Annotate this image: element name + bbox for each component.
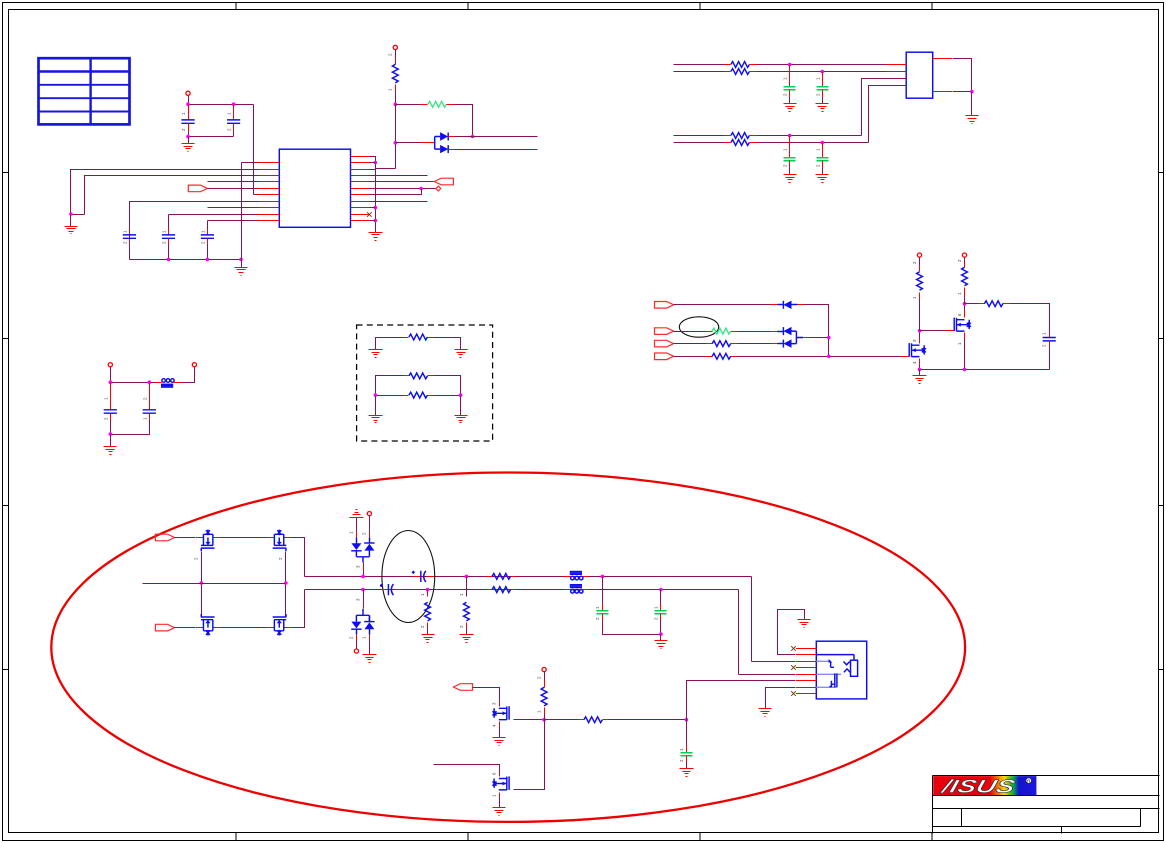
capacitor C9 pin2 stub: [822, 161, 824, 169]
resistor R18: [584, 717, 603, 723]
wire G1 down to Q4 gate: [514, 720, 545, 790]
revision table row lines: [39, 85, 130, 112]
diode D7 up: [364, 544, 374, 551]
wire R13 gnd stem: [427, 629, 429, 635]
junction dot F2: [148, 380, 152, 384]
wire pin R2 join: [370, 162, 376, 164]
wire T pin3: [363, 571, 365, 577]
title block line3: [933, 808, 1160, 810]
resistor R1 pin2 stub: [395, 57, 397, 65]
inductor L1 pin1 stub: [156, 382, 162, 384]
transistor Q1: [908, 343, 910, 357]
wire TR net2: [758, 71, 887, 73]
ground S: [655, 641, 668, 649]
capacitor C17 pin1 stub: [686, 746, 688, 753]
capacitor C3 pin1 stub: [129, 229, 131, 235]
wire T gnd stem: [356, 518, 358, 532]
diode D7 anode lead: [369, 538, 371, 544]
junction dot A3: [186, 135, 190, 139]
wire M4 to R9: [674, 356, 706, 358]
wire gnd stem L: [70, 215, 72, 227]
resistor R17 pin1 stub: [544, 708, 546, 715]
wire J1 pin2 gnd loop: [778, 610, 805, 655]
ground J1a: [798, 620, 811, 628]
wire TR net4 vertical: [869, 86, 907, 143]
wire pin R9 join: [370, 207, 376, 209]
wire net L3 long: [85, 176, 259, 215]
power symbol VCC4: [192, 363, 196, 367]
resistor R11 pin1 stub: [964, 288, 966, 296]
wire R11 to node: [964, 296, 966, 304]
junction dot R9: [374, 206, 378, 210]
capacitor C7 green: [817, 87, 829, 90]
junction dot M9: [918, 368, 922, 372]
wire BR in2: [674, 142, 725, 144]
wire R10 to node: [919, 300, 921, 331]
wire B down to IC bus: [376, 168, 396, 170]
wire J1 pin7 gnd: [766, 688, 796, 709]
connector J1 pins: [796, 649, 816, 694]
junction dot LB1: [167, 258, 171, 262]
junction dot M5: [827, 336, 831, 340]
wire right bus top corner: [370, 157, 376, 233]
capacitor C7 pin2 stub: [822, 90, 824, 98]
capacitor C11 pin2 stub: [149, 383, 151, 410]
junction dot T3: [788, 134, 792, 138]
port PM4: [655, 353, 674, 360]
connector J1 body: [816, 641, 866, 699]
junction dot D2: [459, 393, 463, 397]
junction dot U2g: [970, 90, 974, 94]
ground right bus: [369, 233, 383, 241]
diode D2: [440, 145, 448, 153]
wire L3-L2 gnd link: [71, 214, 85, 216]
transistor M3: [196, 627, 221, 629]
terminal diamond R6: [436, 186, 441, 191]
resistor R18 pin stubs: [578, 719, 584, 721]
connector J1 switch lever: [831, 662, 834, 667]
junction dot T1: [788, 63, 792, 67]
transistor Q4 source stub: [499, 793, 501, 799]
wire vertical L1-net: [241, 163, 243, 260]
wire Rt3 right stub: [434, 395, 461, 397]
capacitor C16 pin2 stub: [660, 614, 662, 621]
ground R14: [460, 635, 474, 643]
wire bottom feed right: [739, 674, 796, 676]
inductor L2: [571, 576, 575, 580]
junction dot T4: [821, 141, 825, 145]
wire M2 to R7: [674, 331, 706, 333]
resistor R8 pin stubs: [706, 343, 713, 345]
junction dot B3: [394, 141, 398, 145]
capacitor C6 pin1 stub: [789, 65, 791, 87]
diode D9 pin1 stub: [369, 629, 371, 635]
junction dot DC1: [361, 575, 365, 579]
wire C9 gnd stem: [822, 169, 824, 175]
ground Q3: [493, 738, 506, 746]
capacitor C10 pin2 stub: [110, 414, 112, 421]
resistor R2 pin2 stub: [447, 104, 455, 106]
diode D8 down: [351, 622, 361, 629]
capacitor C6 pin2 stub: [789, 90, 791, 98]
capacitor C13 pin stubs: [414, 576, 421, 578]
no-connect J1 pin4: [791, 665, 796, 670]
wire Q1 source to bus: [919, 366, 921, 370]
junction dot G2: [685, 718, 689, 722]
ASUS logo background: [933, 776, 1036, 795]
wire node to Q2 gate: [920, 330, 946, 332]
wire pin R7 up to R6: [370, 189, 422, 195]
capacitor C16 green: [655, 611, 667, 614]
junction dot LB3: [239, 258, 243, 262]
wire pin R3 join: [370, 169, 376, 171]
resistor R7 green: [712, 328, 731, 334]
resistor R13 pin2 stub: [427, 623, 429, 629]
wire pin R6 out: [370, 188, 436, 190]
wire M3 to M4: [221, 627, 267, 629]
wire PL1 out: [473, 688, 500, 700]
wire PH1 to M1: [175, 537, 196, 539]
title block bottom divider: [1061, 827, 1063, 834]
no-connect J1 pin1: [791, 646, 796, 651]
connector J1 jack contacts: [816, 661, 841, 687]
wire bottom bus L: [130, 259, 242, 261]
junction dot S1: [426, 588, 430, 592]
wire S4 down: [660, 590, 662, 604]
wire C5 bottom: [207, 245, 209, 260]
junction dot LB2: [206, 258, 210, 262]
diode D3: [783, 301, 791, 309]
title block line4: [933, 826, 1141, 828]
ground Rt2b: [455, 416, 468, 423]
wire net L4 stub: [208, 181, 259, 183]
wire C12 to bus: [1049, 349, 1051, 370]
wire node to R18: [545, 719, 578, 721]
wire H out bottom: [305, 589, 739, 591]
wire net L9 from C4: [169, 214, 259, 216]
ground C7: [816, 104, 829, 112]
wire Rt gnd stem b: [460, 396, 462, 416]
diode cluster B bracket: [356, 609, 369, 622]
title block left edge: [932, 776, 934, 834]
title block line2: [933, 795, 1160, 797]
transistor M1: [196, 537, 221, 539]
diode D1: [440, 132, 448, 140]
wire Rt1 left: [376, 338, 404, 350]
junction dot S5: [659, 632, 663, 636]
wire C11 bottom: [111, 421, 150, 435]
ground J1b: [759, 709, 772, 717]
capacitor C11: [143, 410, 156, 413]
wire U2 gnd stem: [971, 92, 973, 116]
diode D5 anode stub: [771, 343, 778, 345]
capacitor C14 series: [388, 584, 393, 595]
wire S3 down: [602, 577, 604, 604]
ground A: [182, 144, 195, 152]
junction dot S4: [659, 588, 663, 592]
resistor R7 pin stubs: [706, 331, 713, 333]
wire Rt2 left: [376, 376, 404, 396]
resistor R5: [731, 133, 750, 139]
capacitor C5 pin2 stub: [207, 239, 209, 245]
ground Rt2a: [369, 416, 383, 423]
junction dot G1: [542, 718, 546, 722]
port PM3: [655, 340, 674, 347]
wire H mid: [143, 583, 286, 585]
wire VCC3 stem: [110, 367, 112, 383]
ground F: [104, 447, 117, 455]
junction dot M7: [918, 329, 922, 333]
IC U2 left pins: [887, 65, 907, 86]
wire gnd stem M: [919, 370, 921, 376]
diode D5: [783, 339, 791, 347]
ASUS logo registered mark: [1026, 778, 1031, 783]
wire BR net2: [758, 142, 869, 144]
inductor L3 pin stubs: [564, 589, 571, 591]
junction dot A1: [186, 102, 190, 106]
wire net L10 from C5: [208, 220, 259, 222]
diode D5 anode lead: [778, 343, 784, 345]
capacitor C10: [104, 410, 117, 413]
wire G2 down: [686, 720, 688, 746]
resistor Rt2: [409, 373, 428, 379]
junction dot R6: [419, 187, 423, 191]
wire net to pin L6: [253, 105, 255, 195]
junction dot B2: [471, 135, 475, 139]
wire top feed down: [751, 577, 753, 662]
resistor R10: [917, 272, 923, 291]
wire U2 out top: [953, 59, 972, 92]
transistor Q2 gate stub: [946, 330, 955, 332]
port PL1: [453, 684, 472, 691]
wire vertical B: [395, 105, 397, 169]
wire VCC6 stem: [964, 258, 966, 263]
resistor R10 pin1 stub: [919, 293, 921, 300]
wire R8 to D5: [738, 343, 771, 345]
resistor R13: [425, 602, 431, 621]
ASUS logo text: [938, 776, 1018, 797]
wire C4 top: [168, 215, 170, 229]
diode D9 up: [364, 622, 374, 629]
ground C6: [784, 104, 797, 112]
diode D3 out stub: [792, 304, 798, 306]
resistor R17 pin2 stub: [544, 680, 546, 688]
power symbol VCC5: [917, 253, 921, 257]
wire pin R8 out: [370, 201, 428, 203]
wire BR in1: [674, 135, 725, 137]
wire M1 to D3: [674, 304, 771, 306]
junction dot S2: [465, 575, 469, 579]
diode cluster B pin3 stub: [363, 590, 365, 603]
resistor R9: [712, 353, 731, 359]
ground Rt1b: [455, 350, 468, 358]
wire TR net1: [758, 64, 887, 66]
inductor L1: [162, 379, 166, 383]
diode D2 cathode stub: [449, 149, 455, 151]
wire Rt2 right: [434, 376, 461, 396]
wire PH2 to M3: [175, 627, 196, 629]
junction dot D1: [374, 393, 378, 397]
annotation ellipse small: [679, 317, 718, 337]
wire net L6 from cap pair: [254, 194, 259, 196]
wire R18 to node G2: [609, 719, 687, 721]
port P5 left-pointing: [434, 178, 453, 185]
resistor R1: [392, 64, 398, 83]
capacitor C3 pin2 stub: [129, 239, 131, 245]
diode D4-D5 cathode bracket: [792, 331, 804, 344]
diode D4: [783, 327, 791, 335]
ground LB: [235, 268, 248, 276]
wire C6 gnd stem: [789, 98, 791, 104]
ground C8: [784, 175, 797, 183]
transistor Q2 source stub: [964, 333, 966, 339]
resistor R6: [731, 140, 750, 146]
wire Q1 drain to node: [919, 331, 921, 338]
resistor R16 pin stubs: [487, 589, 493, 591]
resistor R12: [984, 301, 1003, 307]
ground B: [363, 655, 377, 663]
capacitor C6 green: [784, 87, 796, 90]
ground R13: [422, 635, 435, 643]
connector J1 switch marks: [831, 662, 850, 688]
wire M1 to M2: [221, 537, 267, 539]
resistor R6 pin stubs: [725, 142, 731, 144]
wire D3 out corner: [804, 305, 829, 357]
ground Q4: [493, 808, 506, 816]
wire filter top bus: [111, 382, 156, 384]
transistor M4: [267, 627, 292, 629]
resistor R2 pin1 stub: [421, 104, 428, 106]
junction dot T2: [821, 70, 825, 74]
transistor Q4: [508, 776, 510, 790]
wire D1 out: [455, 136, 538, 138]
wire C2 bottom: [233, 132, 235, 137]
wire Rt1 right: [434, 338, 461, 350]
resistor R5 pin stubs: [725, 135, 731, 137]
wire M2 out: [292, 538, 305, 577]
wire C10 bottom: [110, 421, 112, 435]
wire R7 to D4: [738, 331, 771, 333]
wire B pwr stem: [356, 641, 358, 650]
ground L: [65, 227, 78, 234]
resistor R10 pin2 stub: [919, 265, 921, 272]
diode D9 cathode lead: [369, 616, 371, 622]
capacitor C2 pin2 stub: [233, 124, 235, 132]
wire port P4 to pin L5: [208, 188, 259, 190]
ground C9: [816, 175, 829, 183]
capacitor C12: [1043, 338, 1056, 341]
resistor R9 pin stubs: [706, 356, 713, 358]
resistor R17: [541, 687, 547, 706]
resistor R12 pin stubs: [979, 303, 985, 305]
diode D3 anode lead: [778, 304, 784, 306]
wire Rt gnd stem a: [375, 396, 377, 416]
wire C8 gnd stem: [789, 169, 791, 175]
resistor R11 pin2 stub: [964, 263, 966, 268]
diode cluster T pin3 stub: [363, 563, 365, 571]
capacitor C1 pin1 stub: [188, 105, 190, 120]
inductor L3: [571, 590, 575, 594]
wire net L7 from C3: [130, 202, 259, 260]
wire D2 out: [455, 149, 538, 151]
capacitor C10 pin1 stub: [110, 383, 112, 410]
IC U1 right pins: [351, 157, 370, 221]
resistor Rt2 pin stubs: [404, 375, 409, 377]
capacitor C8 green: [784, 158, 796, 161]
wire TR net3 vertical: [862, 79, 907, 136]
power symbol VCC2: [393, 45, 397, 49]
wire C4 bottom: [168, 245, 170, 260]
resistor R1 pin1 stub: [395, 85, 397, 93]
wire Q4 in: [434, 765, 500, 771]
power symbol VCC6: [962, 253, 966, 257]
wire top feed right: [752, 661, 796, 663]
wire gnd stem LB: [241, 260, 243, 268]
wire VCC2 stem: [395, 50, 397, 57]
resistor R14 pin2 stub: [466, 623, 468, 629]
wire C16 to bus: [660, 621, 662, 635]
transistor Q3 source stub: [499, 722, 501, 729]
wire U2 out bottom: [953, 91, 972, 93]
no-connect J1 pin8: [791, 691, 796, 696]
wire S2 down: [466, 577, 468, 597]
IC U2 body: [906, 52, 933, 98]
wire bottom bus A: [189, 136, 234, 138]
wire VCC5 stem: [919, 258, 921, 265]
transistor Q3 drain stub: [499, 700, 501, 707]
capacitor C4: [162, 235, 175, 238]
capacitor C7 pin1 stub: [822, 72, 824, 87]
capacitor C9 pin1 stub: [822, 143, 824, 158]
wire Q3 gate to node: [514, 719, 545, 721]
capacitor C8 pin2 stub: [789, 161, 791, 169]
capacitor C4 pin2 stub: [168, 239, 170, 245]
capacitor C15 pin1 stub: [602, 604, 604, 611]
capacitor C16 pin1 stub: [660, 604, 662, 611]
transistor M2: [267, 537, 292, 539]
wire T pwr stem: [369, 516, 371, 532]
junction dot R11: [374, 219, 378, 223]
wire C3 bottom: [129, 245, 131, 260]
junction dot H1: [200, 581, 204, 585]
capacitor C17 green: [681, 753, 693, 756]
power symbol VCC8: [354, 649, 358, 653]
capacitor C2 pin1 stub: [233, 105, 235, 120]
resistor Rt3: [409, 392, 428, 398]
resistor R8: [712, 341, 731, 347]
connector J1 contact arrows: [829, 659, 833, 663]
connector J1 jack tip box: [851, 660, 858, 676]
resistor R4: [731, 69, 750, 75]
resistor Rt3 pin stubs: [404, 395, 409, 397]
capacitor C1 pin2 stub: [188, 124, 190, 132]
wire VCC9 stem: [544, 672, 546, 680]
resistor R14: [464, 602, 470, 621]
capacitor C12 pin1 stub: [1049, 331, 1051, 338]
resistor Rt1 pin stubs: [404, 337, 409, 339]
port PH1: [155, 534, 174, 541]
wire bottom feed down: [738, 590, 740, 675]
ground U2: [966, 116, 979, 124]
power symbol VCC9: [542, 667, 546, 671]
wire gnd stem A: [188, 137, 190, 144]
wire gnd stem F: [110, 435, 112, 447]
wire Q2 drain to node: [964, 304, 966, 311]
wire M2 leg: [285, 552, 287, 618]
IC U1 left pins: [259, 163, 280, 221]
capacitor C13 plus mark: [412, 571, 415, 574]
transistor Q1 drain stub: [919, 338, 921, 344]
